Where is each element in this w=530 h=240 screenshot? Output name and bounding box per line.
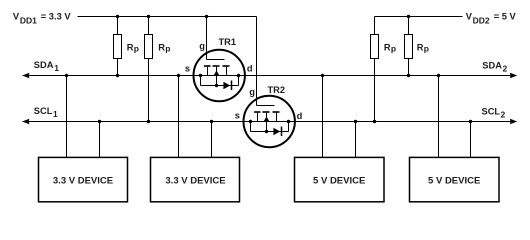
svg-text:1: 1 <box>53 109 58 119</box>
svg-text:3.3 V DEVICE: 3.3 V DEVICE <box>165 176 225 187</box>
svg-text:SCL: SCL <box>482 106 501 116</box>
svg-text:R: R <box>417 42 424 52</box>
svg-text:p: p <box>165 44 170 54</box>
svg-text:= 3.3 V: = 3.3 V <box>41 12 72 22</box>
svg-text:DD2: DD2 <box>473 16 490 26</box>
svg-text:5 V DEVICE: 5 V DEVICE <box>313 176 365 187</box>
svg-text:DD1: DD1 <box>20 16 37 26</box>
svg-text:s: s <box>185 63 190 73</box>
svg-text:s: s <box>235 111 240 121</box>
svg-text:TR1: TR1 <box>219 37 237 47</box>
svg-text:R: R <box>127 42 134 52</box>
svg-text:R: R <box>158 42 165 52</box>
svg-text:2: 2 <box>503 64 508 74</box>
svg-text:= 5 V: = 5 V <box>494 12 517 22</box>
svg-text:g: g <box>199 41 205 51</box>
svg-text:3.3 V DEVICE: 3.3 V DEVICE <box>53 176 113 187</box>
svg-text:SCL: SCL <box>34 106 53 116</box>
svg-text:d: d <box>247 63 253 73</box>
svg-text:g: g <box>249 87 255 97</box>
svg-text:d: d <box>297 111 303 121</box>
svg-text:TR2: TR2 <box>268 85 286 95</box>
svg-text:V: V <box>13 12 20 22</box>
svg-text:5 V DEVICE: 5 V DEVICE <box>428 176 480 187</box>
svg-text:R: R <box>384 42 391 52</box>
svg-text:p: p <box>424 44 429 54</box>
svg-text:SDA: SDA <box>482 60 502 70</box>
svg-text:SDA: SDA <box>34 60 54 70</box>
svg-text:p: p <box>134 44 139 54</box>
svg-text:1: 1 <box>54 63 59 73</box>
svg-text:2: 2 <box>501 110 506 120</box>
svg-text:p: p <box>391 44 396 54</box>
